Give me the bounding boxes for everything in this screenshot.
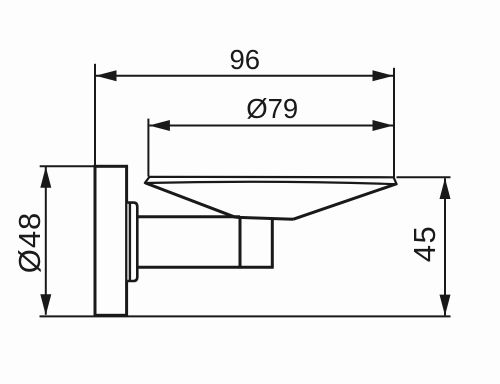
dim 96 left extension line: [94, 64, 96, 166]
dim 79 line: [149, 125, 393, 127]
dim 79 left arrow: [149, 120, 170, 131]
dim 45 line: [444, 178, 446, 315]
svg-text:Ø48: Ø48: [12, 212, 47, 274]
dim 48 bottom arrow: [40, 294, 51, 315]
svg-text:45: 45: [407, 225, 442, 262]
dim 96 left arrow: [96, 70, 117, 81]
dim 96 right arrow: [373, 70, 394, 81]
arm bottom line: [138, 266, 274, 269]
mounting flange front-face edge: [129, 203, 131, 280]
stem right edge: [271, 219, 274, 268]
dim 96 line: [96, 75, 393, 77]
dish cone right slope: [293, 184, 396, 219]
dish cone left slope: [146, 183, 236, 217]
dim 45 bottom arrow: [440, 295, 451, 316]
dim 45 top arrow: [440, 178, 451, 199]
wall plate (side view): [95, 166, 127, 315]
dim 48 top arrow: [40, 167, 51, 188]
svg-text:Ø79: Ø79: [246, 93, 298, 124]
dish cone bottom: [236, 217, 294, 219]
dim 79 left extension line: [147, 119, 149, 177]
bottom extension line (shared 48 / 45): [40, 315, 451, 317]
dim 48 top extension line: [40, 165, 94, 167]
dim 79 right arrow: [373, 120, 394, 131]
dim 48 line: [45, 167, 47, 315]
svg-text:96: 96: [230, 44, 261, 75]
dim 96 / dim 79 shared right extension line: [393, 68, 395, 179]
stem left edge: [239, 216, 242, 267]
arm top line: [138, 215, 240, 218]
mounting flange: [127, 203, 137, 281]
dim 45 top extension line: [397, 176, 451, 178]
dish rim (edge-on sliver): [145, 177, 397, 184]
